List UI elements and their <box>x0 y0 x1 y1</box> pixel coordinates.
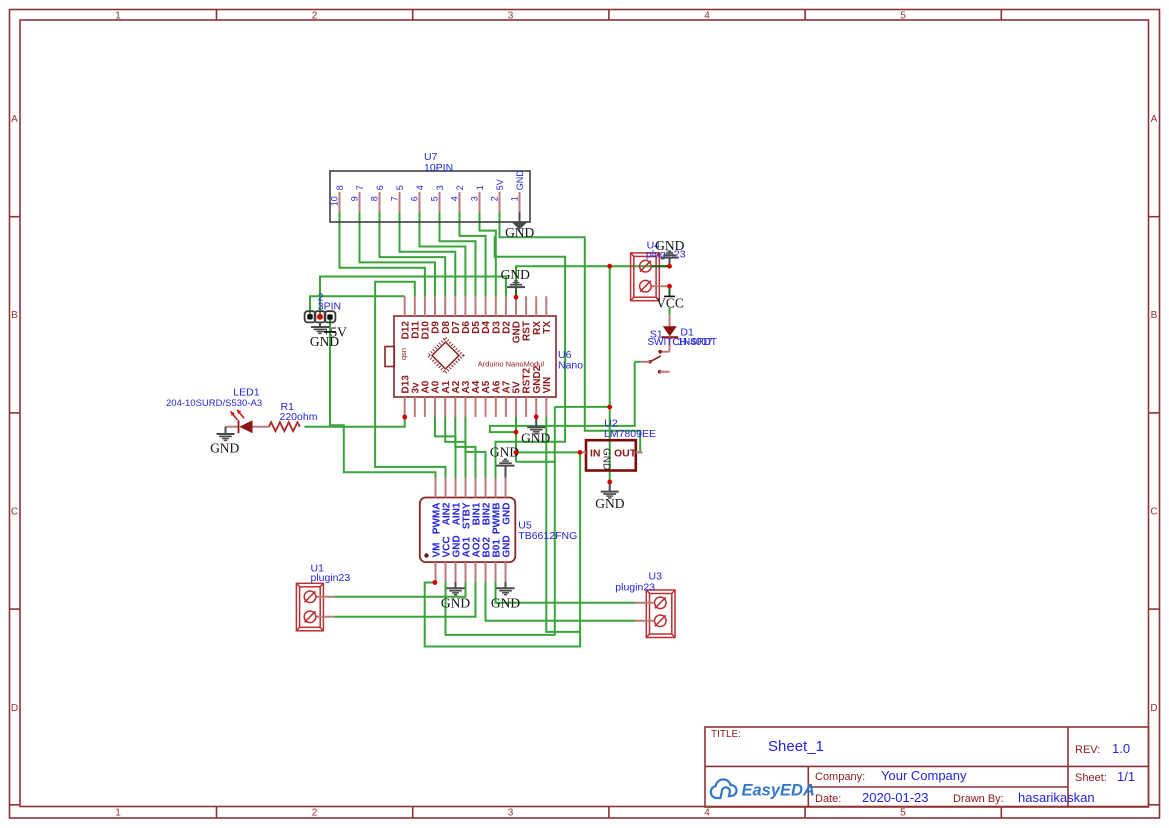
svg-text:hasarikaskan: hasarikaskan <box>1018 790 1095 805</box>
U5 top pin labels <box>431 502 512 534</box>
U3 pin stubs <box>636 602 654 604</box>
U6 bottom pin labels <box>400 365 553 393</box>
wire Nano A3 to U5 BIN2 <box>465 417 485 478</box>
svg-text:204-10SURD/S530-A3: 204-10SURD/S530-A3 <box>166 398 262 409</box>
node Nano GND <box>514 295 519 300</box>
svg-text:1.0: 1.0 <box>1112 741 1130 756</box>
svg-text:3: 3 <box>508 808 514 819</box>
svg-text:10: 10 <box>330 196 340 206</box>
LED1 <box>226 409 269 433</box>
wire Nano A2 to U5 BIN1 <box>455 417 475 478</box>
svg-text:6: 6 <box>410 196 420 201</box>
node U2 GND <box>607 480 612 485</box>
svg-text:GND: GND <box>491 596 520 611</box>
wire right loop to U5 PWMB <box>495 236 565 478</box>
svg-text:2020-01-23: 2020-01-23 <box>862 790 929 805</box>
svg-text:4: 4 <box>450 196 460 201</box>
Arduino Nano U6 body <box>394 316 556 397</box>
wire S1 lever stub <box>635 361 641 363</box>
header 3PIN <box>305 311 336 322</box>
svg-text:4: 4 <box>704 11 710 22</box>
svg-text:C: C <box>11 507 18 518</box>
svg-text:1: 1 <box>115 11 121 22</box>
node 5V lower <box>514 450 519 455</box>
U5 pin1 dot <box>424 553 428 557</box>
node GND mid <box>607 405 612 410</box>
+5V flag at 3PIN pad3 <box>323 325 347 340</box>
svg-text:Nano: Nano <box>558 360 583 372</box>
svg-text:Drawn By:: Drawn By: <box>953 793 1004 805</box>
svg-text:5: 5 <box>900 11 906 22</box>
U6 qfp diamond <box>428 338 463 373</box>
ground flag at U4 pin1 <box>655 238 684 266</box>
svg-text:5: 5 <box>395 185 405 190</box>
svg-text:2: 2 <box>312 808 318 819</box>
wire 10PIN p4 to D4 <box>460 212 486 296</box>
node 5V upper <box>514 430 519 435</box>
svg-text:TX: TX <box>542 321 553 334</box>
wire S1 to node chain <box>490 362 635 432</box>
svg-text:3PIN: 3PIN <box>318 300 341 312</box>
wire 10PIN p3 to D3 <box>480 212 496 296</box>
U6 usb connector box <box>385 347 394 367</box>
svg-text:2: 2 <box>490 196 500 201</box>
U5 top pins <box>436 478 506 498</box>
U7 pins 10..1 <box>340 192 520 212</box>
U7 pin name labels <box>335 170 525 191</box>
node U4 pin2 <box>667 284 672 289</box>
svg-text:GND: GND <box>210 441 239 456</box>
svg-text:D: D <box>1150 703 1157 714</box>
svg-text:A: A <box>1151 114 1158 125</box>
wire LED net D13 to R1 <box>304 417 404 427</box>
wire 10PIN p5 to D5 <box>440 212 476 296</box>
svg-text:3: 3 <box>470 196 480 201</box>
wire VM to U2 IN bottom loop <box>425 452 580 646</box>
ground flag at U2 GND pin <box>595 482 624 511</box>
svg-text:plugin23: plugin23 <box>311 572 351 584</box>
svg-text:4: 4 <box>704 808 710 819</box>
svg-text:1/1: 1/1 <box>1117 769 1135 784</box>
svg-text:GND: GND <box>595 496 624 511</box>
svg-text:A: A <box>11 114 18 125</box>
svg-text:EasyEDA: EasyEDA <box>742 782 815 800</box>
regulator U2 LM7809EE <box>586 440 636 470</box>
svg-text:5: 5 <box>900 808 906 819</box>
svg-text:SWITCH-SPDT: SWITCH-SPDT <box>647 337 716 348</box>
svg-text:REV:: REV: <box>1075 744 1100 756</box>
node GND2 <box>534 414 539 419</box>
svg-text:D: D <box>11 703 18 714</box>
svg-text:1: 1 <box>115 808 121 819</box>
U5 bottom pins <box>436 562 506 582</box>
svg-text:8: 8 <box>335 185 345 190</box>
node U2 IN <box>578 450 583 455</box>
svg-text:10PIN: 10PIN <box>424 162 453 174</box>
U1 pin stubs <box>317 596 335 598</box>
connector U1 plugin23 <box>296 583 323 631</box>
svg-text:B: B <box>1151 310 1158 321</box>
svg-text:OUT: OUT <box>614 448 637 460</box>
node D13 <box>402 415 407 420</box>
wire Nano A0 to U5 AIN1 <box>435 417 456 478</box>
svg-text:LED1: LED1 <box>233 387 259 399</box>
svg-text:C: C <box>1150 507 1157 518</box>
ground flag at Nano GND top pin <box>501 267 530 297</box>
ground flag at U5 top GND pin <box>490 445 519 478</box>
svg-text:3: 3 <box>435 185 445 190</box>
U5 bottom pin labels <box>431 535 512 557</box>
ground flag at Nano GND2 bottom pin <box>521 417 550 446</box>
wire Nano A1 to U5 STBY <box>445 417 465 478</box>
svg-text:TB6612FNG: TB6612FNG <box>518 530 577 542</box>
svg-text:B: B <box>11 310 18 321</box>
wire 10PIN p8 to D8 <box>380 212 446 296</box>
wire vertical right of U5 <box>446 407 555 635</box>
wire Nano 5V pin vertical <box>515 417 517 462</box>
wire U5 VCC chain <box>516 461 555 463</box>
ground flag at U5 bottom GND pin right <box>491 582 520 611</box>
svg-text:GND: GND <box>505 225 534 240</box>
wire Nano VIN down <box>546 417 580 632</box>
wire 10PIN p7 to D7 <box>400 212 456 296</box>
svg-text:9: 9 <box>350 196 360 201</box>
node U4 row GND <box>607 264 612 269</box>
wire GND vertical through U2 <box>609 266 611 482</box>
svg-text:1: 1 <box>475 185 485 190</box>
wire 3PIN pad1 to Nano D12 <box>310 296 405 317</box>
svg-text:GND: GND <box>501 267 530 282</box>
svg-text:GND: GND <box>515 170 525 191</box>
ground flag at 3PIN pad2 <box>310 322 339 349</box>
svg-text:GND: GND <box>501 503 512 525</box>
U4 pin stubs <box>652 265 670 267</box>
U2 pin stubs <box>580 451 586 453</box>
svg-text:5: 5 <box>430 196 440 201</box>
svg-text:Your Company: Your Company <box>881 768 967 783</box>
connector U3 plugin23 <box>646 590 675 638</box>
wire 3PIN pad2 to Nano D2 <box>320 277 506 317</box>
connector U7 10PIN body <box>330 171 530 222</box>
U6 bottom pins <box>405 397 547 417</box>
wire U5 AO1 to U1 pin1 <box>334 582 465 597</box>
U7 pin number labels <box>330 196 520 206</box>
svg-text:GND: GND <box>601 448 612 470</box>
svg-text:GND: GND <box>501 535 512 557</box>
wire U5 B01 to U3 pin1 <box>496 582 636 603</box>
wire GND row to U2 column <box>555 406 610 408</box>
svg-text:Date:: Date: <box>815 793 841 805</box>
svg-text:2: 2 <box>455 185 465 190</box>
wire +5V rail 3PIN pad3 to U5 PWMA <box>330 317 436 478</box>
wire U5 BO2 to U3 pin2 <box>486 582 636 621</box>
title block <box>705 727 1149 807</box>
wire 10PIN p2 5V rail down right side <box>500 212 641 452</box>
wire 10PIN p6 to D6 <box>420 212 466 296</box>
svg-text:7: 7 <box>390 196 400 201</box>
switch S1 <box>641 337 670 373</box>
ground flag at LED1 <box>210 427 239 456</box>
svg-text:GND: GND <box>521 431 550 446</box>
svg-text:5V: 5V <box>495 179 505 190</box>
svg-text:1: 1 <box>510 196 520 201</box>
svg-text:Company:: Company: <box>815 771 865 783</box>
resistor R1 <box>269 422 300 431</box>
svg-text:8: 8 <box>370 196 380 201</box>
svg-text:TITLE:: TITLE: <box>711 729 741 740</box>
wire U5 AO2 to U1 pin2 <box>334 582 475 617</box>
driver U5 TB6612FNG body <box>420 498 516 563</box>
svg-text:LM7809EE: LM7809EE <box>604 428 656 440</box>
EasyEDA logo <box>711 779 815 799</box>
svg-text:plugin23: plugin23 <box>615 582 655 594</box>
diode D1 <box>662 315 679 338</box>
U6 top pins <box>405 296 547 316</box>
svg-text:VIN: VIN <box>542 377 553 394</box>
svg-text:IN: IN <box>590 448 601 460</box>
svg-text:Sheet:: Sheet: <box>1075 772 1107 784</box>
svg-text:2: 2 <box>312 11 318 22</box>
svg-text:220ohm: 220ohm <box>280 411 318 423</box>
ground flag at U7 pin1 <box>505 212 534 240</box>
svg-text:usb: usb <box>400 348 409 360</box>
svg-text:3: 3 <box>508 11 514 22</box>
wire 10PIN p9 to D9 <box>360 212 436 296</box>
U6 top pin labels <box>400 321 553 344</box>
node U4 pin1 <box>667 264 672 269</box>
svg-text:+5V: +5V <box>323 325 347 340</box>
wire Nano D11 to U5 AIN2 <box>375 282 445 478</box>
svg-text:4: 4 <box>415 185 425 190</box>
wire GND net Nano GND pin to U4 pin1 <box>516 266 670 297</box>
title block texts <box>711 729 1135 805</box>
svg-text:Sheet_1: Sheet_1 <box>768 738 824 755</box>
junction dots <box>402 264 672 585</box>
wire 10PIN p10 to D10 <box>340 212 425 296</box>
svg-text:6: 6 <box>375 185 385 190</box>
connector U4 plugin23 <box>631 253 660 301</box>
svg-text:GND: GND <box>441 596 470 611</box>
wire IN link <box>516 451 580 453</box>
VCC flag at U4 pin2 <box>656 286 684 314</box>
svg-text:7: 7 <box>355 185 365 190</box>
node VM <box>433 580 438 585</box>
ground flag at U5 bottom GND pin left <box>441 582 470 611</box>
